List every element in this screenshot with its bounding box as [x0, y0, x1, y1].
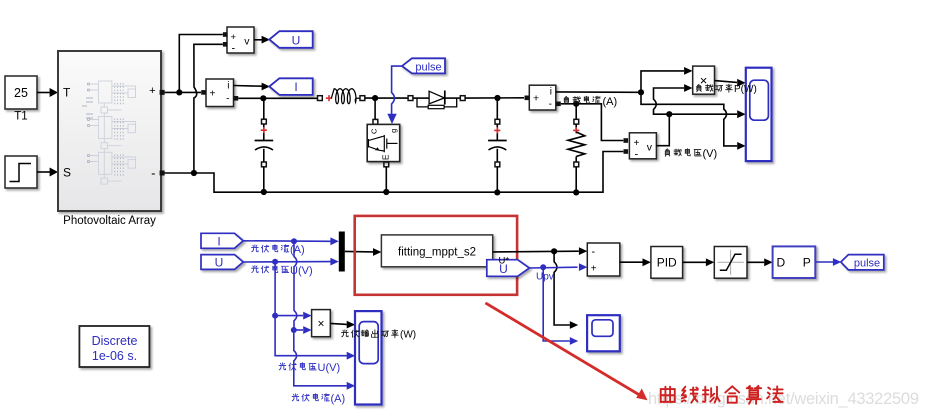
- diode D1: [408, 91, 524, 109]
- svg-text:25: 25: [14, 86, 28, 100]
- node IGBT bus junction: [383, 189, 389, 195]
- Discrete block: [79, 326, 149, 367]
- wire I2 minus / load current rail: [561, 104, 624, 141]
- wire V1 out to U tag: [254, 36, 270, 44]
- D-P block: [773, 246, 816, 278]
- wire product to scope: [715, 79, 746, 87]
- label 负载电压(V): [665, 149, 701, 157]
- node load voltage junction: [666, 111, 672, 117]
- svg-text:pulse: pulse: [854, 257, 880, 269]
- svg-text:-: -: [226, 94, 229, 105]
- svg-text:(A): (A): [331, 393, 346, 405]
- saturation block: [714, 247, 747, 279]
- wire U tag to sum: [529, 266, 577, 269]
- label 光伏输出功率(W): [342, 330, 399, 338]
- svg-text:+: +: [231, 32, 237, 43]
- wire I1 i-out to I tag: [234, 83, 271, 91]
- from tag U (bottom): [201, 255, 243, 270]
- Photovoltaic Array block: [58, 51, 161, 227]
- wire load voltage to product (hop) and scope: [654, 88, 685, 114]
- wire pulse tag to IGBT gate (blue, hop): [387, 66, 402, 124]
- node I to product2: [291, 327, 297, 333]
- wire PID to saturation: [683, 258, 715, 266]
- node resistor junction: [573, 101, 579, 107]
- scope PV: [355, 311, 382, 404]
- svg-text:-: -: [151, 166, 155, 181]
- constant T1: [5, 76, 37, 123]
- node U* junction: [551, 248, 557, 254]
- svg-text:(V): (V): [703, 148, 718, 160]
- svg-text:(A): (A): [290, 244, 305, 256]
- svg-text:C: C: [369, 128, 378, 134]
- svg-text:PID: PID: [657, 256, 677, 270]
- wire I1 minus to inductor: [238, 97, 317, 99]
- svg-text:v: v: [647, 142, 653, 154]
- label 负载电流(A): [564, 96, 600, 104]
- svg-text:Photovoltaic Array: Photovoltaic Array: [63, 215, 156, 227]
- svg-text:T1: T1: [14, 111, 27, 123]
- svg-text:+: +: [533, 93, 539, 105]
- wire load current to scope input 3 (hops): [641, 92, 737, 146]
- svg-text:S: S: [63, 166, 71, 180]
- svg-text:-: -: [635, 149, 639, 161]
- scope load: [746, 68, 772, 161]
- wire saturation to DP: [747, 258, 773, 266]
- from tag I (bottom): [201, 233, 243, 248]
- svg-text:i: i: [227, 81, 229, 92]
- from tag U (mid): [487, 260, 530, 277]
- svg-text:U: U: [215, 256, 224, 270]
- svg-text:D: D: [777, 256, 786, 270]
- fitting_mppt_s2 block: [381, 235, 492, 267]
- node cap2 junction: [494, 95, 500, 101]
- label 负载功率P(W): [697, 84, 732, 92]
- capacitor C2 branch: [488, 98, 507, 192]
- node PV- junction: [191, 170, 197, 176]
- wire junction down to IGBT: [374, 98, 376, 119]
- wire PV+ to I1: [165, 91, 201, 93]
- wire U tag to mux: [243, 261, 330, 263]
- node C1 bottom junction: [261, 189, 267, 195]
- wire U to product2 in1 (hop over I vertical): [275, 315, 303, 317]
- node IGBT junction: [372, 95, 378, 101]
- capacitor C1 branch: [255, 98, 274, 192]
- wire I tag to mux: [243, 240, 330, 243]
- goto tag I: [269, 78, 312, 95]
- wire I2 i-out to node: [556, 91, 641, 93]
- wire V+ sense: [179, 35, 223, 93]
- wire V- sense with hop: [194, 44, 223, 171]
- wire U2 out up to node: [656, 114, 669, 146]
- product block PV power: [312, 310, 331, 337]
- svg-text:+: +: [149, 85, 155, 97]
- svg-text:-: -: [592, 246, 596, 258]
- svg-text:I: I: [217, 234, 220, 248]
- wire U branch down: [274, 262, 276, 313]
- wire I down to scope2 in3: [294, 330, 347, 386]
- wire fitting out to sum (node, hop down): [493, 250, 579, 253]
- node PV+ junction: [176, 89, 182, 95]
- wire Upv down to scope4 in2: [543, 267, 570, 341]
- svg-text:U: U: [292, 33, 301, 47]
- svg-text:+: +: [210, 89, 216, 100]
- svg-text:T: T: [63, 86, 71, 100]
- node cap1 junction: [260, 95, 266, 101]
- svg-text:I: I: [294, 80, 297, 94]
- node R1 bus junction: [573, 189, 579, 195]
- wire U down to scope2 in2 (hop): [275, 316, 347, 356]
- node C2 bottom junction: [494, 189, 500, 195]
- svg-text:Upv: Upv: [536, 272, 554, 283]
- voltage sensor U1: [223, 27, 254, 55]
- label 光伏电流(A) lower: [292, 394, 329, 402]
- inductor L1: [318, 89, 409, 104]
- label 光伏电压U(V) lower: [279, 363, 316, 371]
- wire mux to fitting: [345, 248, 382, 256]
- svg-text:v: v: [244, 36, 250, 48]
- sum block: [587, 243, 620, 276]
- step block: [5, 156, 37, 188]
- IGBT Q1: [367, 124, 400, 161]
- svg-text:1e-06 s.: 1e-06 s.: [92, 349, 137, 363]
- svg-text:-: -: [232, 43, 236, 55]
- from tag pulse (top): [402, 58, 445, 73]
- node U branch: [272, 259, 278, 265]
- wire sum to PID: [620, 258, 651, 266]
- voltage sensor U2: [629, 133, 656, 161]
- node U to product2: [272, 313, 278, 319]
- svg-text:https://blog.csdn.net/weixin_4: https://blog.csdn.net/weixin_43322509: [648, 390, 919, 408]
- svg-text:-: -: [549, 99, 552, 110]
- svg-text:g: g: [389, 129, 398, 133]
- svg-text:×: ×: [317, 317, 324, 331]
- wire I to product2 in2: [294, 329, 303, 331]
- svg-text:+: +: [591, 264, 597, 275]
- svg-text:+: +: [634, 138, 640, 149]
- svg-text:(W): (W): [400, 330, 416, 341]
- current sensor I2: [525, 85, 561, 110]
- svg-text:P: P: [803, 256, 811, 270]
- mux: [339, 232, 345, 272]
- bottom bus wire: [165, 152, 624, 193]
- svg-text:pulse: pulse: [415, 61, 441, 73]
- red highlight box: [355, 216, 517, 295]
- resistor R1 branch: [568, 104, 585, 193]
- red label 曲线拟合算法: [661, 386, 783, 404]
- wire constant to T: [37, 88, 58, 97]
- PID block: [651, 247, 683, 279]
- svg-text:(A): (A): [603, 96, 618, 108]
- goto tag U: [269, 31, 312, 48]
- svg-text:U*: U*: [499, 256, 510, 267]
- PV - output port: [160, 171, 165, 176]
- svg-text:fitting_mppt_s2: fitting_mppt_s2: [398, 247, 476, 259]
- wire DP to pulse tag: [815, 258, 841, 266]
- product block load power: [693, 66, 715, 94]
- wire load current to product input 1: [641, 71, 684, 92]
- node load current junction: [638, 89, 644, 95]
- wire U* down to scope4 (hop over blue): [554, 251, 570, 325]
- node I branch: [291, 238, 297, 244]
- svg-text:E: E: [381, 154, 391, 160]
- red annotation arrow: [485, 303, 647, 400]
- goto tag pulse (bottom): [841, 255, 884, 270]
- scope U*: [587, 315, 620, 351]
- svg-text:i: i: [550, 87, 552, 98]
- svg-text:Discrete: Discrete: [92, 334, 138, 348]
- wire step to S: [37, 168, 58, 177]
- label 光伏电压U(V) top: [252, 265, 289, 273]
- PV + output port: [160, 90, 165, 95]
- svg-text:U(V): U(V): [318, 362, 341, 374]
- node Upv junction: [540, 264, 546, 270]
- svg-text:P(W): P(W): [734, 84, 757, 95]
- wire I branch down (hop over U wire): [294, 241, 297, 327]
- IGBT emitter to bus: [384, 162, 389, 192]
- label 光伏电流(A) top: [252, 245, 289, 253]
- current sensor I1: [201, 79, 238, 107]
- wire product2 to scope2: [330, 321, 355, 329]
